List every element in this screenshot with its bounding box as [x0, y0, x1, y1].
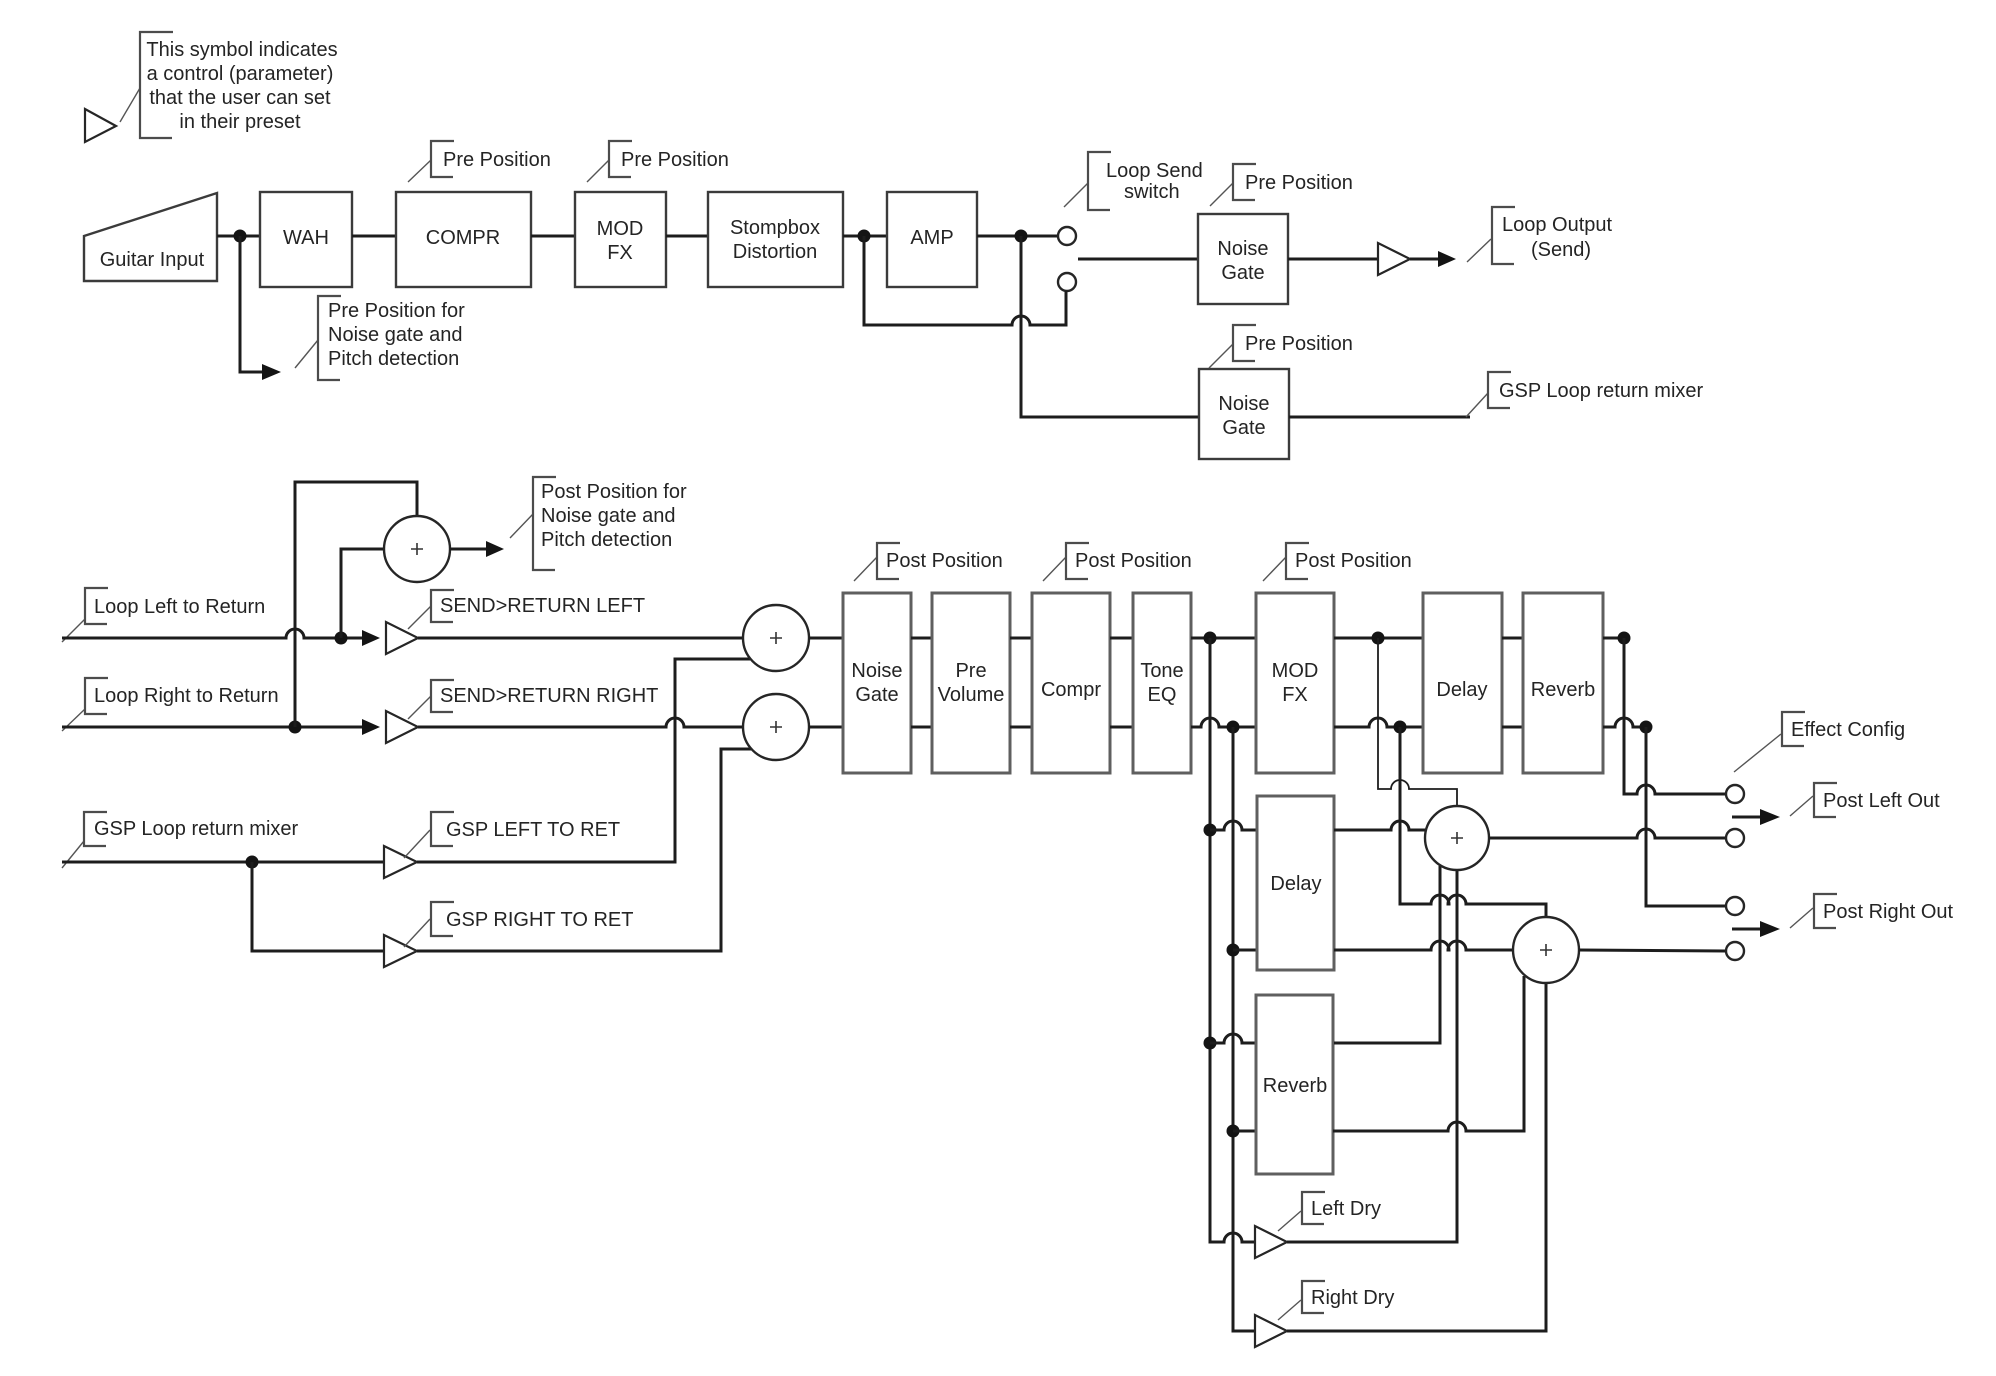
node Loop Left pitch tap — [335, 632, 348, 645]
node before AMP (bypass tap) — [858, 230, 871, 243]
svg-text:Loop Output: Loop Output — [1502, 214, 1613, 236]
wire pitch loop up-over — [295, 482, 417, 727]
wire Delay bottom output to right sum with hops — [1334, 941, 1513, 950]
svg-text:Loop Right to Return: Loop Right to Return — [94, 685, 279, 707]
svg-text:GSP RIGHT TO RET: GSP RIGHT TO RET — [446, 909, 633, 931]
callout Post Left Out leader — [1790, 796, 1813, 816]
wire Right Dry to right sum — [1287, 983, 1546, 1331]
node top line tap at 1378 — [1372, 632, 1385, 645]
callout Right Dry leader — [1278, 1300, 1301, 1320]
callout GSP Loop return mixer (top) leader — [1466, 393, 1488, 417]
callout Left Dry leader — [1278, 1211, 1301, 1231]
svg-text:Noise: Noise — [1217, 238, 1268, 260]
svg-text:Post Position: Post Position — [1295, 550, 1412, 572]
svg-text:Post Right Out: Post Right Out — [1823, 901, 1954, 923]
wire reverb bottom line to right jack — [1646, 727, 1726, 906]
callout Post Position (MOD FX) leader — [1263, 557, 1286, 581]
wire Reverb left input with hop — [1210, 1034, 1256, 1043]
svg-text:Loop Send: Loop Send — [1106, 160, 1203, 182]
wire WAH to COMPR — [352, 235, 396, 238]
summer right return mixer — [743, 694, 809, 760]
loop send switch contact lower — [1058, 273, 1076, 291]
callout Left Dry bracket — [1302, 1192, 1325, 1224]
wire right sum to post right out jack — [1579, 950, 1726, 951]
svg-text:that the user can set: that the user can set — [149, 87, 331, 109]
wire left tap vertical to Left Dry — [1210, 638, 1255, 1242]
svg-text:Effect Config: Effect Config — [1791, 719, 1905, 741]
wires Compr to Tone EQ — [1110, 638, 1133, 727]
wire AMP to loop send switch — [977, 235, 1058, 238]
Noise Gate 2 block (GSP loop return) — [1199, 369, 1289, 459]
callout Pre Position (Noise Gate send) bracket — [1233, 164, 1256, 200]
wire Guitar Input to WAH — [217, 235, 260, 238]
Delay block (post chain) — [1423, 593, 1502, 773]
wire right tap vertical to Right Dry — [1233, 727, 1255, 1331]
callout SEND>RETURN RIGHT leader — [408, 696, 431, 719]
wire GSP right to right mixer — [417, 749, 751, 951]
buffer amp SEND>RETURN LEFT — [386, 622, 418, 654]
callout Post Position (Compr) bracket — [1066, 543, 1089, 579]
arrowhead pre tap — [262, 364, 281, 380]
jack post right out A — [1726, 897, 1744, 915]
node Reverb top out — [1618, 632, 1631, 645]
wires Delay to Reverb — [1502, 638, 1523, 727]
svg-text:Noise: Noise — [1218, 393, 1269, 415]
node GSP return split — [246, 856, 259, 869]
callout Loop Right to Return bracket — [85, 678, 108, 714]
wire MOD FX to Delay top — [1334, 637, 1423, 640]
callout SEND>RETURN LEFT bracket — [431, 590, 454, 622]
callout GSP Loop return mixer (top) bracket — [1488, 372, 1511, 408]
callout Effect Config bracket — [1782, 712, 1805, 746]
callout Pre Position (Noise Gate 2) bracket — [1233, 325, 1256, 361]
callout GSP RIGHT TO RET leader — [404, 919, 430, 947]
svg-text:Noise gate and: Noise gate and — [541, 505, 676, 527]
jack post left out B — [1726, 829, 1744, 847]
legend callout bracket — [140, 32, 173, 138]
svg-text:MOD: MOD — [1272, 660, 1319, 682]
wire Reverb bottom output up to right sum with hop — [1333, 976, 1524, 1131]
svg-text:This symbol indicates: This symbol indicates — [146, 39, 337, 61]
wires Pre Volume to Compr — [1010, 638, 1032, 727]
callout Pre Position for Noise gate and Pitch detection leader — [295, 340, 318, 368]
wire reverb top line to effect config jack — [1624, 638, 1726, 794]
wire Noise Gate to send buffer — [1288, 258, 1378, 261]
wire MOD FX left out down to left sum — [1378, 638, 1457, 806]
svg-text:Post Position: Post Position — [886, 550, 1003, 572]
Compr block — [1032, 593, 1110, 773]
svg-text:Delay: Delay — [1436, 679, 1487, 701]
callout GSP Loop return mixer (mid) bracket — [84, 812, 107, 846]
buffer amp Right Dry — [1255, 1315, 1287, 1347]
wire Left Dry to left sum — [1287, 870, 1457, 1242]
wire Reverb right input — [1233, 1130, 1256, 1133]
svg-text:Left Dry: Left Dry — [1311, 1198, 1381, 1220]
wire node to pre Noise Gate 2 — [1021, 236, 1199, 417]
callout Pre Position (COMPR) bracket — [431, 141, 454, 177]
wire GSP right branch down — [252, 862, 384, 951]
svg-text:MOD: MOD — [597, 218, 644, 240]
post Noise Gate block — [843, 593, 911, 773]
svg-text:Pre Position: Pre Position — [621, 149, 729, 171]
wire Reverb top output up to left sum — [1334, 866, 1440, 1043]
wire Tone EQ to MOD FX top — [1191, 637, 1256, 640]
COMPR block — [396, 192, 531, 287]
node bottom line tap at 1400 — [1394, 721, 1407, 734]
node Delay right input tap — [1227, 944, 1240, 957]
wire Stompbox to AMP — [843, 235, 887, 238]
summer left return mixer — [743, 605, 809, 671]
svg-text:Pre Position: Pre Position — [1245, 333, 1353, 355]
callout Loop Left to Return bracket — [85, 588, 108, 624]
loop send switch contact upper — [1058, 227, 1076, 245]
node Reverb left input tap — [1204, 1037, 1217, 1050]
Delay block (parallel) — [1257, 796, 1334, 970]
svg-text:Post Left Out: Post Left Out — [1823, 790, 1940, 812]
legend callout leader line — [120, 88, 140, 122]
buffer amp GSP LEFT TO RET — [384, 846, 417, 878]
wire MOD FX to Stompbox — [666, 235, 708, 238]
Stompbox Distortion block — [708, 192, 843, 287]
svg-text:Stompbox: Stompbox — [730, 217, 820, 239]
Pre Volume block — [932, 593, 1010, 773]
wire MOD FX right out down to right sum — [1400, 727, 1546, 917]
wire Loop Right to Return line — [62, 726, 362, 729]
wire switch to pre Noise Gate — [1078, 258, 1198, 261]
svg-text:SEND>RETURN LEFT: SEND>RETURN LEFT — [440, 595, 645, 617]
callout Effect Config leader — [1734, 734, 1781, 772]
callout Pre Position (MOD FX) leader — [587, 160, 609, 182]
arrow loop output send — [1410, 258, 1438, 261]
svg-text:FX: FX — [1282, 684, 1308, 706]
callout Loop Send switch leader — [1064, 183, 1088, 207]
wire GSP loop return line — [62, 861, 384, 864]
svg-text:Guitar Input: Guitar Input — [100, 249, 205, 271]
callout Post Position for Noise gate and Pitch detection bracket — [533, 477, 556, 570]
svg-text:GSP LEFT TO RET: GSP LEFT TO RET — [446, 819, 620, 841]
svg-text:Gate: Gate — [1221, 262, 1264, 284]
svg-text:Reverb: Reverb — [1531, 679, 1595, 701]
callout Post Position (Noise Gate) leader — [854, 557, 877, 581]
svg-text:GSP Loop return mixer: GSP Loop return mixer — [1499, 380, 1704, 402]
svg-text:Gate: Gate — [855, 684, 898, 706]
node bottom line tap at 1233 — [1227, 721, 1240, 734]
buffer amp loop send — [1378, 243, 1410, 275]
node Reverb right input tap — [1227, 1125, 1240, 1138]
svg-text:Volume: Volume — [938, 684, 1005, 706]
buffer amp GSP RIGHT TO RET — [384, 935, 417, 967]
svg-text:switch: switch — [1124, 181, 1180, 203]
MOD FX block (post) — [1256, 593, 1334, 773]
callout Loop Output (Send) bracket — [1492, 207, 1515, 264]
svg-text:EQ: EQ — [1148, 684, 1177, 706]
wire left sum to post left out jack with hop — [1489, 829, 1726, 838]
buffer amp Left Dry — [1255, 1226, 1287, 1258]
wire amp bypass under AMP — [864, 236, 1066, 325]
svg-text:GSP Loop return mixer: GSP Loop return mixer — [94, 818, 299, 840]
Noise Gate block (loop send) — [1198, 214, 1288, 304]
summer pitch detection — [384, 516, 450, 582]
callout Post Position (MOD FX) bracket — [1286, 543, 1309, 579]
callout Loop Right to Return leader — [62, 709, 85, 731]
svg-text:a control (parameter): a control (parameter) — [147, 63, 334, 85]
wire Reverb top out — [1603, 637, 1624, 640]
svg-text:Pre Position for: Pre Position for — [328, 300, 465, 322]
buffer amp SEND>RETURN RIGHT — [386, 711, 418, 743]
node Loop Right join — [289, 721, 302, 734]
callout Loop Output (Send) leader — [1467, 239, 1491, 262]
callout Pre Position (Noise Gate send) leader — [1210, 183, 1233, 206]
Tone EQ block — [1133, 593, 1191, 773]
wire pre tap down for noise gate / pitch detection — [240, 236, 262, 372]
arrow post right out — [1732, 928, 1760, 931]
callout Loop Send switch bracket — [1088, 152, 1111, 210]
callout Post Position (Compr) leader — [1043, 557, 1066, 581]
wire Delay right input — [1233, 949, 1257, 952]
svg-text:SEND>RETURN RIGHT: SEND>RETURN RIGHT — [440, 685, 658, 707]
wire Loop Left to Return line — [62, 629, 362, 638]
callout Post Position for Noise gate and Pitch detection leader — [510, 514, 533, 538]
wire right mixer to post Noise Gate — [809, 726, 843, 729]
svg-text:Noise gate and: Noise gate and — [328, 324, 463, 346]
callout GSP LEFT TO RET bracket — [431, 812, 454, 846]
callout Pre Position (COMPR) leader — [408, 160, 431, 182]
svg-text:Pitch detection: Pitch detection — [328, 348, 459, 370]
svg-text:Distortion: Distortion — [733, 241, 817, 263]
callout GSP Loop return mixer (mid) leader — [62, 841, 84, 868]
wire Noise Gate 2 output — [1289, 416, 1470, 419]
svg-text:Post Position: Post Position — [1075, 550, 1192, 572]
svg-text:Tone: Tone — [1140, 660, 1183, 682]
wire GSP left to left mixer — [417, 659, 750, 862]
wire Tone EQ to MOD FX bottom with hop — [1191, 718, 1256, 727]
AMP block — [887, 192, 977, 287]
MOD FX block (pre) — [575, 192, 666, 287]
wires Noise Gate to Pre Volume — [911, 638, 932, 727]
jack post left out A — [1726, 785, 1744, 803]
svg-text:Right Dry: Right Dry — [1311, 1287, 1394, 1309]
svg-text:(Send): (Send) — [1531, 239, 1591, 261]
node after Guitar Input — [234, 230, 247, 243]
callout Post Position (Noise Gate) bracket — [877, 543, 900, 579]
svg-text:Gate: Gate — [1222, 417, 1265, 439]
svg-text:Loop Left to Return: Loop Left to Return — [94, 596, 265, 618]
node top line tap at 1210 — [1204, 632, 1217, 645]
WAH block — [260, 192, 352, 287]
wire MOD FX to Delay bottom with hop — [1334, 718, 1423, 727]
wire Loop Left to left mixer — [418, 637, 743, 640]
Reverb block (post chain) — [1523, 593, 1603, 773]
svg-text:Noise: Noise — [851, 660, 902, 682]
arrow post left out — [1732, 816, 1760, 819]
wire COMPR to MOD FX — [531, 235, 575, 238]
callout Pre Position for Noise gate and Pitch detection bracket — [318, 296, 341, 380]
callout Pre Position (MOD FX) bracket — [609, 141, 632, 177]
callout Right Dry bracket — [1302, 1281, 1325, 1313]
callout Pre Position (Noise Gate 2) leader — [1209, 344, 1233, 368]
wire Reverb bottom out with hop — [1603, 718, 1646, 727]
svg-text:Pre Position: Pre Position — [443, 149, 551, 171]
svg-text:Delay: Delay — [1270, 873, 1321, 895]
node Reverb bottom out — [1640, 721, 1653, 734]
Guitar Input block — [84, 193, 217, 281]
svg-text:FX: FX — [607, 242, 633, 264]
svg-text:Compr: Compr — [1041, 679, 1101, 701]
arrowhead Loop Right — [362, 719, 380, 735]
svg-text:WAH: WAH — [283, 227, 329, 249]
wire left mixer to post Noise Gate — [809, 637, 843, 640]
arrowhead Loop Left — [362, 630, 380, 646]
node after AMP — [1015, 230, 1028, 243]
callout SEND>RETURN LEFT leader — [408, 606, 431, 629]
wire Loop Right to right mixer — [418, 718, 743, 727]
wire Delay left input with hop — [1210, 821, 1257, 830]
callout Post Right Out leader — [1790, 908, 1813, 928]
wire Delay top output to left sum with hop — [1334, 821, 1426, 830]
svg-text:in their preset: in their preset — [179, 111, 301, 133]
svg-text:Pitch detection: Pitch detection — [541, 529, 672, 551]
svg-text:Reverb: Reverb — [1263, 1075, 1327, 1097]
svg-text:AMP: AMP — [910, 227, 953, 249]
Reverb block (parallel) — [1256, 995, 1333, 1174]
summer post right mix — [1513, 917, 1579, 983]
callout SEND>RETURN RIGHT bracket — [431, 680, 454, 712]
summer post left mix — [1425, 806, 1489, 870]
svg-text:Pre: Pre — [955, 660, 986, 682]
callout Post Right Out bracket — [1814, 894, 1837, 928]
legend user-control triangle symbol — [85, 109, 116, 142]
svg-text:Pre Position: Pre Position — [1245, 172, 1353, 194]
callout GSP RIGHT TO RET bracket — [431, 902, 454, 936]
jack post right out B — [1726, 942, 1744, 960]
callout GSP LEFT TO RET leader — [404, 830, 430, 858]
wire pitch tap up — [341, 549, 384, 638]
arrow pitch sum out — [450, 548, 486, 551]
svg-text:Post Position for: Post Position for — [541, 481, 687, 503]
callout Loop Left to Return leader — [62, 619, 85, 642]
node Delay left input tap — [1204, 824, 1217, 837]
callout Post Left Out bracket — [1814, 783, 1837, 817]
svg-text:COMPR: COMPR — [426, 227, 500, 249]
